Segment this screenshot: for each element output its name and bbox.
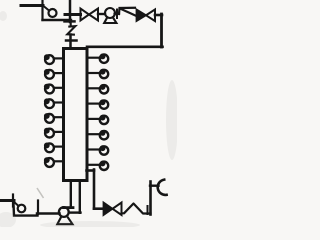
pump P2 base [57, 218, 72, 225]
nozzle L4 [44, 98, 63, 108]
return line [87, 45, 163, 48]
nozzle R2 [88, 69, 108, 78]
neck bottom bar [64, 206, 74, 209]
pipe inlet to riser [43, 19, 72, 21]
nozzle L6 [44, 128, 63, 138]
pump outlet stub [69, 211, 81, 213]
valve V1 [81, 9, 99, 21]
flange tick F5 [37, 201, 39, 215]
bottoms stub [87, 169, 95, 172]
vent horizontal [150, 184, 159, 186]
nozzle L8 [44, 157, 63, 167]
zigzag break Z3 [122, 204, 151, 214]
nozzle L3 [44, 84, 63, 94]
nozzle R3 [88, 84, 108, 93]
column C1 [64, 49, 88, 181]
main riser top [69, 0, 72, 22]
pipe tee to valve V1 [65, 13, 81, 16]
pipe bottom-left inlet [0, 199, 14, 202]
line break Z2 [119, 8, 135, 14]
pipe top-left inlet [21, 4, 43, 7]
flange tick F2 [65, 20, 75, 23]
nozzle R5 [88, 115, 108, 124]
line break Z1 [67, 22, 75, 35]
pump P1 base [104, 18, 116, 23]
pipe V2 to corner [155, 14, 162, 17]
vent riser [149, 182, 152, 215]
pipe after P1 [115, 13, 120, 15]
nozzle R7 [88, 145, 108, 154]
neck left wall [70, 181, 72, 207]
check stub bottom [14, 202, 19, 206]
valve V3 [104, 203, 113, 216]
flange tick F3 [66, 39, 77, 42]
nozzle L7 [44, 143, 63, 153]
right downcomer [160, 14, 163, 47]
flange tick F4 [116, 10, 118, 19]
check stub [44, 6, 50, 11]
nozzle R6 [88, 130, 108, 139]
pipe V1 to pump P1 [98, 13, 105, 15]
vent arc [158, 180, 167, 195]
nozzle L1 [44, 54, 63, 64]
pump inlet pipe [37, 212, 60, 215]
nozzle L5 [44, 113, 63, 123]
flange tick F7 [147, 206, 149, 214]
right nozzles [88, 54, 108, 171]
pipe elbow bottom-left [14, 204, 38, 216]
flange tick F1 [41, 1, 43, 20]
instrument circle B2 [18, 205, 26, 213]
stray pencil mark [37, 188, 44, 198]
pipe to valve V3 [94, 207, 104, 210]
nozzle R1 [88, 54, 108, 63]
left nozzles [44, 54, 63, 167]
bottoms downcomer [93, 170, 96, 209]
nozzle R8 [88, 161, 108, 170]
nozzle L2 [44, 69, 63, 79]
pump P2 circle [59, 207, 69, 217]
line break Z2 diagonal [121, 9, 137, 16]
instrument circle B1 [49, 9, 57, 17]
neck right wall [79, 181, 81, 213]
flange tick F6 [12, 195, 14, 207]
pump P1 circle [105, 8, 115, 18]
riser lower [69, 35, 72, 48]
valve V2 [137, 10, 147, 22]
nozzle R4 [88, 99, 108, 108]
